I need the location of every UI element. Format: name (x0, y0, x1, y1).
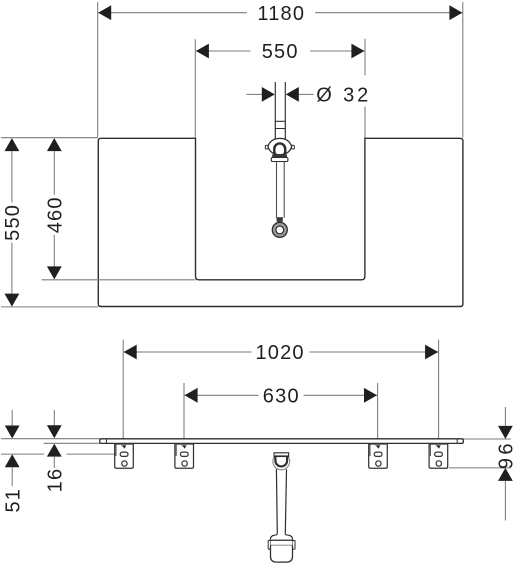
wire extension line left of 1180 (97, 2, 99, 138)
siphon rim band (270, 540, 293, 545)
console slab front view (100, 439, 464, 444)
drain pipe upper stubs (d32 extension) (275, 82, 285, 121)
siphon eyelet ring front view (273, 453, 290, 470)
drain waste body joint (275, 121, 286, 139)
wire extension right of 630 (377, 383, 379, 439)
siphon side tabs (268, 541, 295, 550)
dimension 630 (185, 386, 378, 408)
svg-text:1180: 1180 (257, 3, 305, 25)
wire extension left of 1020 (122, 340, 124, 439)
wire extension slab top right (463, 438, 511, 440)
siphon vertical pipe (276, 469, 286, 534)
wire extension bracket bottom right (449, 467, 511, 469)
svg-text:Ø 32: Ø 32 (316, 85, 371, 107)
mounting bracket 2 (175, 444, 194, 468)
dimension 1020 (124, 342, 439, 364)
drain eyelet ring (272, 222, 287, 237)
dimension 550 vertical (console depth) (2, 138, 24, 307)
dimension 1180 (98, 3, 462, 25)
drain hose clamp (277, 218, 283, 222)
dimension 96 (496, 407, 516, 521)
wire extension slab bottom (16) (44, 442, 100, 444)
svg-text:630: 630 (263, 386, 300, 408)
dimension diameter 32 (247, 85, 372, 107)
siphon coupling collar (270, 534, 293, 540)
wire extension line right of 550 (broken around digit 2) (364, 39, 366, 138)
mounting bracket 3 (369, 444, 388, 468)
wire extension right of 1020 (438, 340, 440, 439)
wire extension bracket slot line (51) (1, 453, 120, 455)
wire extension left of 630 (183, 383, 185, 439)
drain collar ring (271, 158, 288, 162)
mounting bracket 1 (115, 444, 134, 468)
dimension 460 (cutout depth) (44, 138, 66, 279)
siphon cup (271, 545, 293, 562)
svg-text:550: 550 (2, 204, 24, 241)
wire extension line right of 1180 (462, 2, 464, 138)
dimension 51 (2, 410, 24, 513)
drain tailpipe (277, 162, 285, 218)
svg-text:550: 550 (262, 41, 299, 63)
drain collar dark band (273, 155, 287, 158)
drain flange with ears (265, 138, 294, 154)
siphon attachment cap (274, 453, 289, 457)
mounting bracket 4 (429, 444, 448, 468)
svg-text:460: 460 (44, 196, 66, 233)
wire extension at console front edge (1, 306, 98, 308)
svg-text:1020: 1020 (255, 342, 304, 364)
dimension 16 (45, 410, 67, 492)
svg-text:51: 51 (2, 488, 24, 513)
wire extension line left of 550 (194, 39, 196, 138)
wire extension at cutout bottom (460) (42, 279, 196, 281)
dimension 550 horizontal (196, 41, 365, 63)
svg-text:96: 96 (496, 440, 516, 469)
console top-view outline with basin cutout (98, 138, 463, 306)
wire extension slab top left (1, 438, 100, 440)
svg-text:16: 16 (45, 468, 67, 493)
wire extension at console back edge (1, 137, 98, 139)
